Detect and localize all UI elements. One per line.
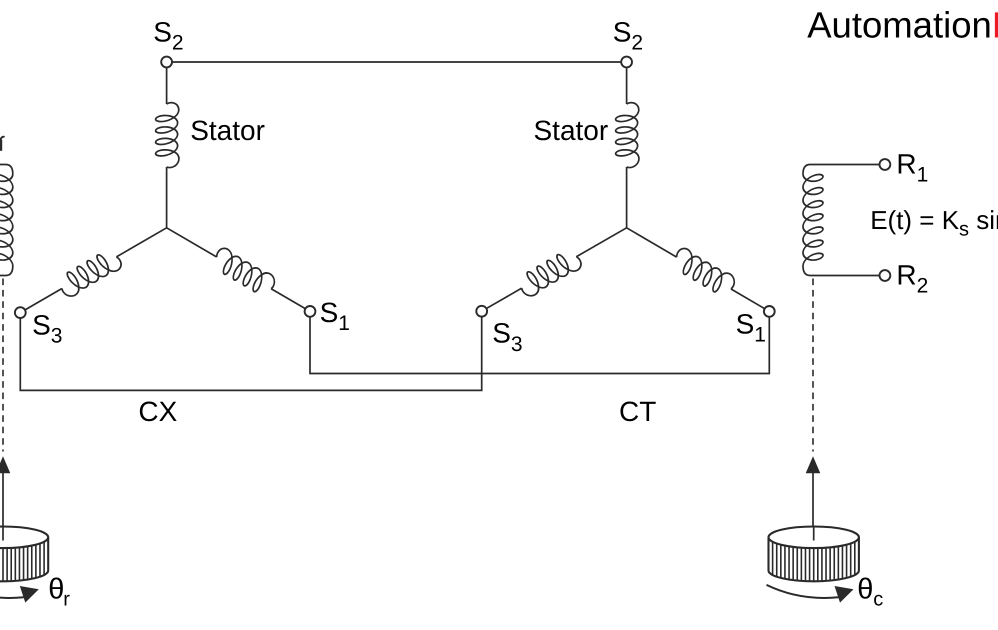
wire: CT S2 winding to neutral junction xyxy=(626,167,628,228)
label Rotor (clipped at left edge, only tail of final r visible) xyxy=(0,140,2,151)
terminal S3 of CT xyxy=(476,306,487,317)
coil: CX S2 stator winding xyxy=(156,102,179,169)
terminal S1 of CX xyxy=(305,306,316,317)
svg-text:Stator: Stator xyxy=(190,115,265,146)
terminal S3 of CX xyxy=(15,307,26,318)
knob: control dial right xyxy=(769,527,859,582)
wire: S1 bus CX to CT xyxy=(310,317,769,374)
wire: CX S3 arm upper segment xyxy=(15,218,173,323)
wire: dashed shaft line left xyxy=(2,279,4,452)
svg-text:AutomationForum: AutomationForum xyxy=(807,5,998,46)
wire: CT S3 arm upper segment xyxy=(476,218,633,322)
svg-text:θ: θ xyxy=(857,574,873,606)
svg-text:c: c xyxy=(873,588,883,610)
svg-text:r: r xyxy=(63,588,70,610)
terminal S2 of CX xyxy=(161,57,172,68)
wire: right (CT) rotor bottom lead xyxy=(803,266,880,276)
terminal S2 of CT xyxy=(621,57,632,68)
terminal R1 xyxy=(880,159,891,170)
wire: left (CX) rotor bottom lead xyxy=(0,266,13,276)
terminal R2 xyxy=(880,270,891,281)
wire: left (CX) rotor top lead xyxy=(0,165,13,175)
knob: control dial left xyxy=(0,527,48,582)
arrow: rotation direction left xyxy=(0,585,24,598)
arrow: shaft rotation axis right xyxy=(806,456,821,473)
wire: CX S2 lead xyxy=(166,62,168,104)
coil: left (CX) rotor winding xyxy=(0,170,13,266)
terminal S1 of CT xyxy=(764,306,775,317)
svg-text:CT: CT xyxy=(619,396,656,427)
svg-text:θ: θ xyxy=(48,574,64,606)
wire: S3 bus CX to CT xyxy=(20,317,481,391)
wire: dashed shaft line right xyxy=(812,279,814,452)
coil: CT S2 stator winding xyxy=(616,102,639,169)
wire: CX S2 winding to neutral junction xyxy=(166,167,168,228)
wire: right (CT) rotor top lead xyxy=(803,165,880,175)
svg-text:Stator: Stator xyxy=(534,115,609,146)
coil: right (CT) rotor winding xyxy=(803,170,823,266)
wire: CT S2 lead xyxy=(626,62,628,104)
wire: CX S1 arm upper segment xyxy=(161,217,316,321)
svg-text:CX: CX xyxy=(138,396,177,427)
wire: CT S1 arm upper segment xyxy=(621,217,775,321)
arrow: rotation direction right xyxy=(767,585,839,598)
wire: S2-S2 top bus xyxy=(167,61,627,63)
arrow: shaft rotation axis left xyxy=(0,456,10,473)
